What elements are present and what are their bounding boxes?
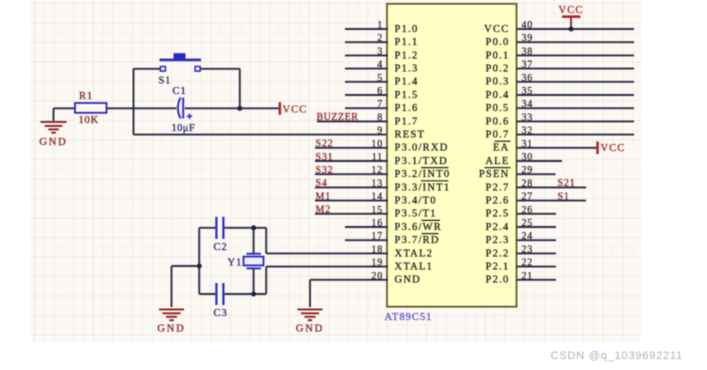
wire GND pin 20 branch xyxy=(309,280,311,307)
svg-text:P0.6: P0.6 xyxy=(486,116,510,127)
svg-text:8: 8 xyxy=(377,112,383,123)
wire pin 26 xyxy=(517,213,557,215)
svg-text:S21: S21 xyxy=(558,178,576,189)
svg-text:M1: M1 xyxy=(316,191,332,202)
wire crystal ground branch xyxy=(172,266,200,307)
svg-text:CSDN @q_1039692211: CSDN @q_1039692211 xyxy=(551,350,683,362)
wire pin 29 PSEN xyxy=(517,173,556,175)
svg-text:10μF: 10μF xyxy=(172,123,196,134)
svg-text:P1.6: P1.6 xyxy=(395,103,419,114)
power VCC (pin 31 EA) xyxy=(596,142,625,155)
wire pin 21 xyxy=(517,279,557,281)
overlines INT0 INT1 WR RD (left) xyxy=(421,168,449,234)
svg-text:9: 9 xyxy=(377,126,383,137)
svg-text:EA: EA xyxy=(493,143,510,154)
capacitor C3 xyxy=(199,283,266,319)
svg-text:P3.6/WR: P3.6/WR xyxy=(395,222,443,233)
svg-text:P3.7/RD: P3.7/RD xyxy=(395,235,440,246)
crystal Y1 xyxy=(228,228,264,294)
svg-text:16: 16 xyxy=(371,218,383,229)
junction node (S1 right / C1 / VCC) xyxy=(237,106,242,111)
svg-text:S31: S31 xyxy=(316,152,334,163)
svg-text:29: 29 xyxy=(522,165,534,176)
svg-text:REST: REST xyxy=(395,130,426,141)
svg-text:PSEN: PSEN xyxy=(479,169,510,180)
junction crystal left to ground xyxy=(197,264,202,269)
svg-text:P0.4: P0.4 xyxy=(486,90,510,101)
svg-text:GND: GND xyxy=(39,137,67,148)
svg-text:14: 14 xyxy=(371,192,383,203)
svg-text:P1.3: P1.3 xyxy=(395,64,419,75)
svg-text:40: 40 xyxy=(522,20,534,31)
wire pin 15 xyxy=(315,213,388,215)
junction crystal bottom xyxy=(251,292,256,297)
svg-text:XTAL2: XTAL2 xyxy=(395,248,434,259)
wire R1 to C1 xyxy=(107,107,177,109)
wire pin 39 xyxy=(517,41,635,43)
svg-text:P3.0/RXD: P3.0/RXD xyxy=(395,143,449,154)
svg-text:2: 2 xyxy=(377,33,383,44)
svg-text:P1.0: P1.0 xyxy=(395,24,419,35)
svg-text:P2.6: P2.6 xyxy=(486,196,510,207)
pin names left column xyxy=(395,24,451,286)
svg-text:S22: S22 xyxy=(316,139,334,150)
svg-text:P2.5: P2.5 xyxy=(486,209,510,220)
svg-text:26: 26 xyxy=(522,205,534,216)
junction VCC pin 40 xyxy=(569,27,574,32)
power VCC (reset) xyxy=(279,102,308,115)
pushbutton S1 xyxy=(159,53,202,86)
wire pin 6 xyxy=(345,94,388,96)
svg-text:17: 17 xyxy=(371,231,383,242)
svg-text:P2.1: P2.1 xyxy=(486,262,510,273)
power VCC (pin 40) xyxy=(559,5,584,29)
svg-text:P0.5: P0.5 xyxy=(486,103,510,114)
wire pin 4 xyxy=(345,68,388,70)
wire pin 24 xyxy=(517,239,557,241)
capacitor C1 10uF (polarized) xyxy=(172,86,196,134)
svg-text:6: 6 xyxy=(377,86,383,97)
svg-text:P0.3: P0.3 xyxy=(486,77,510,88)
wire crystal top to XTAL2 xyxy=(265,228,267,254)
svg-text:GND: GND xyxy=(296,324,324,335)
svg-text:S1: S1 xyxy=(159,76,172,87)
svg-text:C3: C3 xyxy=(214,308,228,319)
ground GND (reset resistor) xyxy=(39,108,75,148)
svg-text:36: 36 xyxy=(522,73,534,84)
wire pin 12 xyxy=(315,173,388,175)
svg-text:P1.4: P1.4 xyxy=(395,77,419,88)
svg-text:BUZZER: BUZZER xyxy=(317,112,359,123)
svg-text:37: 37 xyxy=(522,60,534,71)
svg-text:GND: GND xyxy=(395,275,422,286)
wire C1 to VCC xyxy=(185,107,280,109)
pin names right column xyxy=(479,24,510,286)
svg-text:19: 19 xyxy=(371,258,383,269)
overlines EA ALE PSEN (right) xyxy=(485,141,511,167)
svg-text:P1.1: P1.1 xyxy=(395,37,419,48)
svg-text:C2: C2 xyxy=(214,242,228,253)
svg-text:R1: R1 xyxy=(79,91,93,102)
svg-text:28: 28 xyxy=(522,178,534,189)
svg-text:P3.5/T1: P3.5/T1 xyxy=(395,209,437,220)
svg-text:7: 7 xyxy=(377,99,383,110)
svg-text:33: 33 xyxy=(522,112,534,123)
wire pin 1 xyxy=(345,28,388,30)
wire pin 19 XTAL1 xyxy=(266,266,388,268)
svg-text:25: 25 xyxy=(522,218,534,229)
svg-text:P2.4: P2.4 xyxy=(486,222,510,233)
svg-text:1: 1 xyxy=(377,20,383,31)
svg-text:P3.1/TXD: P3.1/TXD xyxy=(395,156,448,167)
svg-text:P3.4/T0: P3.4/T0 xyxy=(395,196,437,207)
svg-text:Y1: Y1 xyxy=(228,258,243,269)
svg-text:P2.3: P2.3 xyxy=(486,235,510,246)
svg-text:12: 12 xyxy=(371,165,383,176)
svg-text:11: 11 xyxy=(372,152,383,163)
wire pin 31 EA xyxy=(517,147,598,149)
svg-text:XTAL1: XTAL1 xyxy=(395,262,434,273)
svg-text:27: 27 xyxy=(522,192,534,203)
wire pin 32 xyxy=(517,134,635,136)
svg-text:10: 10 xyxy=(371,139,383,150)
svg-text:VCC: VCC xyxy=(484,24,509,35)
wire pin 17 xyxy=(345,239,388,241)
svg-text:AT89C51: AT89C51 xyxy=(385,312,433,323)
svg-text:S32: S32 xyxy=(316,165,334,176)
wire pin 11 xyxy=(315,160,388,162)
svg-text:VCC: VCC xyxy=(283,105,308,116)
svg-text:5: 5 xyxy=(377,73,383,84)
svg-text:10K: 10K xyxy=(79,115,99,126)
capacitor C2 xyxy=(199,217,266,253)
wire pin 28 xyxy=(517,186,587,188)
svg-text:P0.0: P0.0 xyxy=(486,37,510,48)
svg-text:P0.1: P0.1 xyxy=(486,50,510,61)
IC U1 AT89C51 body xyxy=(387,4,517,307)
svg-text:VCC: VCC xyxy=(559,5,584,16)
svg-text:P3.2/INT0: P3.2/INT0 xyxy=(395,169,451,180)
wire pin 22 xyxy=(517,266,557,268)
svg-text:3: 3 xyxy=(377,46,383,57)
wire pin 20 GND xyxy=(310,279,388,281)
wire pin 16 xyxy=(345,226,388,228)
svg-text:34: 34 xyxy=(522,99,534,110)
wire pin 37 xyxy=(517,68,635,70)
wire pin 7 xyxy=(345,107,388,109)
wire pin 18 XTAL2 xyxy=(266,252,388,254)
junction crystal top xyxy=(251,225,256,230)
ground GND (chip pin 20) xyxy=(296,309,324,334)
wire pin 10 xyxy=(315,147,388,149)
wire pin 13 xyxy=(315,186,388,188)
resistor R1 10K xyxy=(75,91,107,126)
svg-text:ALE: ALE xyxy=(485,156,509,167)
wire pin 23 xyxy=(517,252,557,254)
svg-text:P3.3/INT1: P3.3/INT1 xyxy=(395,182,451,193)
wire S1 right terminal down to VCC rail xyxy=(200,69,240,109)
svg-text:13: 13 xyxy=(371,178,383,189)
svg-text:P2.0: P2.0 xyxy=(486,275,510,286)
svg-text:P1.7: P1.7 xyxy=(395,116,419,127)
svg-text:P0.2: P0.2 xyxy=(486,64,510,75)
svg-text:38: 38 xyxy=(522,46,534,57)
svg-text:P0.7: P0.7 xyxy=(486,130,510,141)
ground GND (crystal) xyxy=(157,309,185,334)
wire pin 38 xyxy=(517,54,635,56)
svg-text:C1: C1 xyxy=(173,86,187,97)
wire S1 left terminal down to reset node xyxy=(134,69,161,135)
svg-text:30: 30 xyxy=(522,152,534,163)
svg-text:31: 31 xyxy=(522,139,534,150)
wire pin 5 xyxy=(345,81,388,83)
svg-text:18: 18 xyxy=(371,244,383,255)
wire crystal bottom to XTAL1 xyxy=(265,267,267,294)
wire reset node to REST pin 9 xyxy=(134,134,389,136)
svg-text:21: 21 xyxy=(522,271,534,282)
svg-text:P1.5: P1.5 xyxy=(395,90,419,101)
wire pin 3 xyxy=(345,54,388,56)
svg-text:24: 24 xyxy=(522,231,534,242)
wire pin 25 xyxy=(517,226,557,228)
svg-text:4: 4 xyxy=(377,60,383,71)
svg-text:M2: M2 xyxy=(316,205,332,216)
svg-text:39: 39 xyxy=(522,33,534,44)
wire pin 14 xyxy=(315,200,388,202)
svg-text:22: 22 xyxy=(522,258,534,269)
svg-text:15: 15 xyxy=(371,205,383,216)
wire pin 36 xyxy=(517,81,635,83)
svg-text:GND: GND xyxy=(157,324,185,335)
svg-text:35: 35 xyxy=(522,86,534,97)
wire pin 8 xyxy=(317,120,388,122)
wire pin 2 xyxy=(345,41,388,43)
svg-text:VCC: VCC xyxy=(601,143,626,154)
svg-text:P1.2: P1.2 xyxy=(395,50,419,61)
wire pin 27 xyxy=(517,200,587,202)
svg-text:P2.2: P2.2 xyxy=(486,248,510,259)
svg-text:23: 23 xyxy=(522,244,534,255)
svg-text:P2.7: P2.7 xyxy=(486,182,510,193)
svg-text:S4: S4 xyxy=(316,178,328,189)
wire pin 40 xyxy=(517,28,635,30)
wire pin 33 xyxy=(517,120,635,122)
svg-text:20: 20 xyxy=(371,271,383,282)
wire crystal left vertical xyxy=(198,228,200,294)
svg-text:32: 32 xyxy=(522,126,534,137)
svg-text:S1: S1 xyxy=(558,191,570,202)
wire pin 35 xyxy=(517,94,635,96)
wire pin 30 ALE xyxy=(517,160,563,162)
wire pin 34 xyxy=(517,107,635,109)
